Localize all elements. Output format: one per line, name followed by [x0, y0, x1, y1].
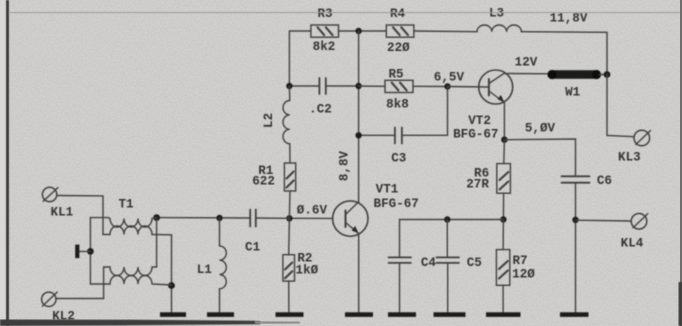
wire C4 to ground	[399, 263, 401, 312]
wire KL1 to T1	[57, 196, 110, 235]
svg-text:C3: C3	[391, 152, 406, 166]
wire VT2 collector to W1	[505, 73, 549, 74]
svg-text:27R: 27R	[466, 178, 489, 192]
svg-text:W1: W1	[565, 86, 581, 100]
node C3 left	[355, 132, 361, 138]
svg-text:622: 622	[252, 175, 275, 189]
inductor L1	[197, 246, 227, 289]
right edge dark line	[680, 0, 682, 326]
svg-text:R5: R5	[388, 68, 403, 82]
node R6/R7	[500, 216, 506, 222]
wire C5 branch	[446, 220, 448, 258]
svg-text:KL3: KL3	[618, 151, 641, 165]
ground C6	[560, 312, 589, 317]
wire R7 branch	[502, 220, 504, 250]
node KL4 branch	[572, 217, 578, 223]
terminal KL3	[618, 130, 650, 164]
svg-text:T1: T1	[118, 198, 134, 212]
wire node down to KL3	[607, 75, 634, 137]
svg-text:.C2: .C2	[309, 103, 332, 117]
ground VT1	[345, 312, 373, 317]
node 0.6V	[286, 215, 292, 221]
top frame faint line	[9, 12, 682, 13]
svg-text:12Ø: 12Ø	[512, 267, 535, 281]
wire L3 to right corner, 11.8V rail	[521, 32, 607, 75]
wire VT2 emitter node down to R6	[503, 140, 506, 164]
wire L1 stem	[219, 218, 221, 246]
wire R3 to node	[339, 30, 387, 32]
transformer T1 upper secondary winding	[110, 226, 172, 312]
wire R7 to ground	[502, 285, 504, 312]
node T1 output	[153, 214, 160, 221]
svg-text:11,8V: 11,8V	[550, 12, 588, 26]
ground C5	[434, 312, 466, 317]
transistor VT2	[453, 70, 513, 142]
svg-text:R7: R7	[512, 254, 527, 268]
wire R4 to L3	[414, 30, 477, 33]
stripline W1	[547, 70, 601, 100]
wire C6 down to ground	[575, 183, 577, 313]
wire L2 top stem	[288, 86, 290, 101]
wire C2 row	[289, 85, 358, 87]
svg-text:L2: L2	[262, 113, 276, 128]
resistor R7	[496, 250, 535, 286]
wire C5 to ground	[447, 263, 449, 312]
svg-text:BFG-67: BFG-67	[453, 128, 498, 142]
wire base row VT1	[289, 217, 332, 219]
svg-text:Ø.6V: Ø.6V	[297, 203, 328, 217]
capacitor C4	[389, 256, 437, 270]
wire vertical x358.6 from rail to VT1 collector	[358, 31, 360, 202]
ground R2	[276, 312, 304, 317]
capacitor C5	[437, 256, 482, 270]
svg-text:C6: C6	[597, 174, 612, 188]
node C2 right	[355, 83, 361, 89]
resistor R1	[252, 163, 295, 191]
node C2 left	[286, 83, 292, 89]
transistor VT1	[333, 183, 419, 237]
svg-text:L1: L1	[197, 263, 213, 277]
svg-text:R4: R4	[390, 7, 406, 21]
svg-text:8k8: 8k8	[386, 98, 409, 112]
resistor R2	[283, 251, 319, 281]
node T1 lower ground junction	[168, 282, 175, 289]
capacitor C2	[309, 78, 332, 117]
resistor R6	[466, 164, 510, 194]
transformer T1 upper primary winding	[90, 218, 156, 227]
wire L2 to R1	[289, 144, 291, 163]
svg-text:12V: 12V	[515, 56, 538, 70]
svg-text:6,5V: 6,5V	[434, 71, 465, 85]
wire to KL4	[576, 219, 631, 222]
ground C4	[388, 312, 416, 317]
node R3/R4 junction	[355, 28, 361, 34]
svg-text:8,8V: 8,8V	[338, 150, 352, 181]
resistor R5	[385, 68, 413, 112]
node 6.5V base VT2	[444, 83, 450, 89]
inductor L3	[477, 7, 521, 32]
wire R2 to ground	[288, 281, 290, 312]
wire tap stub	[79, 250, 90, 252]
terminal KL4	[621, 214, 648, 251]
resistor R4	[386, 7, 414, 55]
resistor R3	[311, 7, 339, 54]
wire VT2 emitter down	[503, 103, 505, 140]
svg-text:R3: R3	[317, 7, 332, 21]
node W1 right	[604, 71, 611, 78]
wire L1 to ground	[219, 289, 221, 313]
wire KL2 to T1	[56, 267, 110, 299]
wire 6.5V node down to C3 row	[402, 87, 448, 136]
ground R7	[486, 312, 521, 317]
svg-text:C5: C5	[467, 256, 482, 270]
wire R6 to bottom row	[502, 193, 504, 219]
node tap	[87, 248, 94, 255]
svg-text:VT2: VT2	[468, 114, 491, 128]
wire R5 row	[359, 85, 448, 88]
left page edge light strip	[0, 0, 6, 326]
ground T1	[160, 312, 186, 317]
capacitor C6	[562, 174, 612, 188]
wire VT1 emitter to ground	[358, 234, 360, 313]
svg-text:5,ØV: 5,ØV	[525, 122, 556, 136]
wire R2 branch	[288, 218, 291, 254]
wire W1 to rail node	[600, 74, 608, 76]
wire 5.0V row to C6 branch	[504, 139, 575, 176]
bottom-left dark bar	[0, 320, 260, 326]
ground L1	[207, 312, 234, 317]
node emitter 5.0V	[501, 137, 507, 143]
node L1 top	[216, 215, 222, 221]
wire base into VT2	[448, 86, 489, 89]
svg-text:C1: C1	[245, 240, 261, 254]
capacitor C1	[245, 210, 261, 255]
wire R1 to 0.6V node	[288, 191, 291, 218]
wire top rail left segment	[289, 31, 311, 86]
svg-text:L3: L3	[489, 7, 504, 21]
node C5 top	[444, 216, 450, 222]
wire main row with C1	[157, 217, 290, 220]
svg-text:KL4: KL4	[621, 237, 644, 251]
transformer T1 lower primary winding	[110, 218, 157, 276]
terminal KL1	[42, 187, 73, 219]
svg-text:C4: C4	[421, 256, 437, 270]
wire C3 to vertical	[359, 134, 395, 136]
svg-text:BFG-67: BFG-67	[374, 197, 419, 211]
wire bottom distribution row	[400, 220, 504, 258]
left border dark bar	[6, 0, 9, 326]
capacitor C3	[391, 128, 406, 166]
inductor L2	[262, 101, 290, 144]
tap electrode bar	[75, 245, 79, 259]
wire tap vertical	[89, 218, 91, 284]
svg-text:VT1: VT1	[376, 183, 399, 197]
svg-text:22Ø: 22Ø	[387, 41, 410, 55]
svg-text:KL1: KL1	[51, 206, 74, 220]
terminal KL2	[42, 292, 75, 324]
svg-text:8k2: 8k2	[313, 40, 336, 54]
svg-text:1kØ: 1kØ	[296, 263, 319, 277]
transformer T1 lower secondary winding	[90, 276, 171, 286]
